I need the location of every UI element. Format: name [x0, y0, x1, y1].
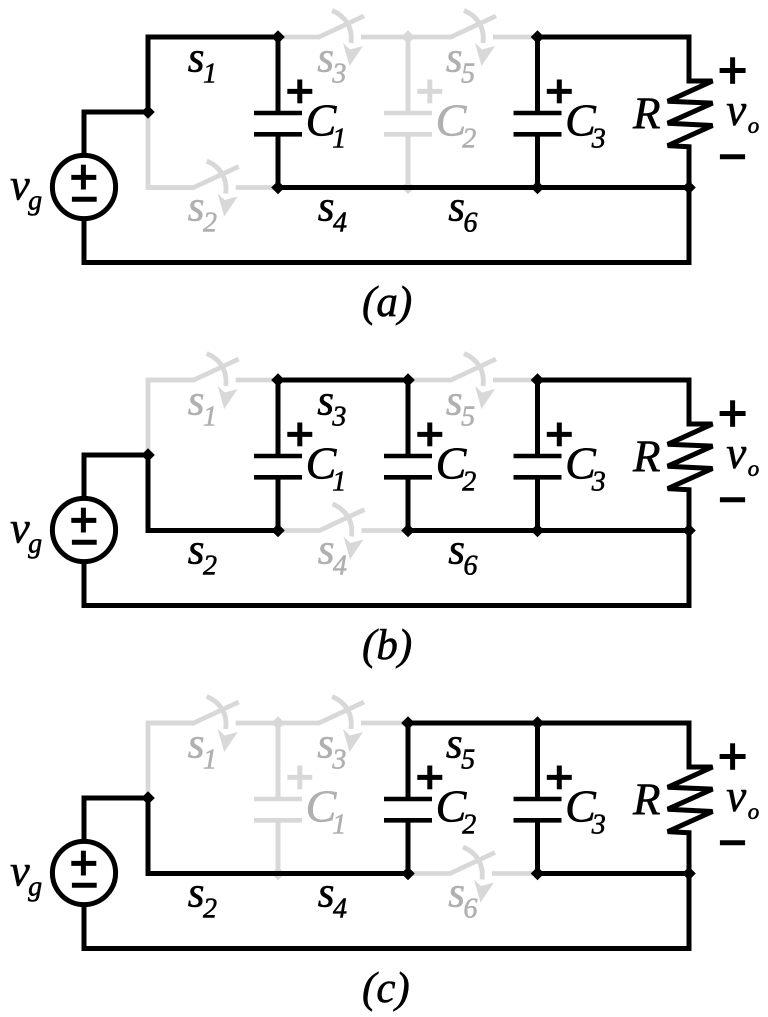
node C3 top: [531, 716, 545, 730]
wire s6 (closed switch): [406, 185, 541, 190]
svg-text:s1: s1: [188, 378, 217, 433]
node C1 bottom (gray): [271, 867, 285, 881]
wire s1 left segment: [148, 721, 195, 726]
node C2 bottom: [401, 524, 415, 538]
resistor R: [668, 723, 713, 874]
svg-text:s3: s3: [317, 35, 346, 90]
node C3 top: [531, 30, 545, 44]
switch s6 (open): [450, 847, 495, 903]
wire vg top to J1: [84, 112, 148, 153]
svg-text:vg: vg: [10, 503, 42, 559]
wire s2 right segment: [236, 185, 278, 190]
node C1 top: [271, 30, 285, 44]
capacitor C2: [384, 37, 442, 188]
svg-text:R: R: [632, 88, 661, 138]
wire J1 to top rail: [148, 37, 278, 112]
wire s5 left segment: [408, 378, 452, 383]
wire s5 right segment: [493, 378, 538, 383]
wire top rail right: [538, 721, 692, 726]
capacitor C2: [384, 380, 442, 531]
svg-text:C1: C1: [306, 781, 347, 841]
svg-text:s1: s1: [188, 721, 217, 776]
svg-text:s3: s3: [317, 378, 346, 433]
wire s5 right segment: [493, 35, 538, 40]
capacitor C1: [254, 723, 312, 874]
svg-text:(c): (c): [362, 965, 410, 1012]
svg-text:vo: vo: [726, 85, 759, 138]
svg-text:s1: s1: [188, 35, 217, 90]
capacitor C1: [254, 37, 312, 188]
wire s1 left segment: [148, 378, 195, 383]
node C2 top (gray): [401, 30, 415, 44]
svg-text:R: R: [632, 431, 661, 481]
svg-text:s6: s6: [448, 870, 477, 925]
switch s5 (open): [451, 11, 496, 67]
node J1: [141, 791, 155, 805]
label vo minus: [720, 497, 745, 502]
svg-text:C2: C2: [436, 438, 477, 498]
wire s3 right segment: [361, 35, 408, 40]
resistor R: [668, 380, 713, 531]
wire bottom rail right: [538, 185, 690, 190]
node C2 top: [401, 373, 415, 387]
node C3 top: [531, 373, 545, 387]
wire s1 right segment: [236, 721, 278, 726]
switch s3 (open): [319, 11, 364, 67]
wire s5 left segment: [408, 35, 452, 40]
svg-text:s4: s4: [318, 527, 347, 582]
wire J1 to top rail (gray): [148, 380, 195, 455]
wire s4 right segment: [362, 528, 409, 533]
svg-text:s3: s3: [317, 721, 346, 776]
node C2 bottom (gray): [401, 181, 415, 195]
wire s3 right segment: [361, 721, 408, 726]
svg-text:C1: C1: [306, 438, 347, 498]
switch s2 (open): [194, 161, 239, 217]
svg-text:s6: s6: [448, 527, 477, 582]
label vo minus: [720, 840, 745, 845]
node C3 bottom: [531, 524, 545, 538]
capacitor C3: [514, 723, 572, 874]
svg-text:vg: vg: [10, 160, 42, 216]
wire J1 to bottom rail: [146, 455, 151, 531]
wire top rail right: [538, 35, 692, 40]
node C2 bottom: [401, 867, 415, 881]
svg-text:(a): (a): [362, 279, 412, 326]
node C1 top (gray): [271, 716, 285, 730]
svg-text:vg: vg: [10, 846, 42, 902]
svg-text:s5: s5: [446, 721, 475, 776]
svg-text:vo: vo: [726, 428, 759, 481]
node C3 bottom: [531, 181, 545, 195]
wire J1 to bottom rail: [146, 798, 151, 874]
node C1 bottom: [271, 181, 285, 195]
capacitor C1: [254, 380, 312, 531]
wire ground rail: [84, 531, 689, 606]
wire J1 to top rail (gray): [148, 723, 195, 798]
node C3 bottom: [531, 867, 545, 881]
wire s2 (closed switch): [146, 871, 281, 876]
node C1 top: [271, 373, 285, 387]
node R bottom: [682, 867, 696, 881]
svg-text:(b): (b): [362, 622, 412, 669]
svg-text:s4: s4: [318, 184, 347, 239]
wire s4 (closed switch): [276, 185, 411, 190]
svg-text:s4: s4: [318, 870, 347, 925]
svg-text:C2: C2: [436, 95, 477, 155]
wire s3 left segment: [278, 721, 320, 726]
svg-text:s2: s2: [188, 870, 217, 925]
wire ground rail: [84, 874, 689, 949]
node J1: [141, 105, 155, 119]
label vo plus: [720, 400, 746, 427]
label vo plus: [720, 57, 746, 84]
voltage source vg: [52, 155, 115, 218]
wire top rail right: [538, 378, 692, 383]
wire bottom rail right: [538, 528, 690, 533]
switch s1 (open): [194, 697, 239, 753]
svg-text:R: R: [632, 774, 661, 824]
wire s2 left segment: [148, 185, 195, 190]
node R bottom: [682, 524, 696, 538]
svg-text:vo: vo: [726, 771, 759, 824]
wire s4 left segment: [278, 528, 321, 533]
wire s6 (closed switch): [406, 528, 541, 533]
switch s1 (open): [194, 354, 239, 410]
voltage source vg: [52, 498, 115, 561]
switch s5 (open): [451, 354, 496, 410]
resistor R: [668, 37, 713, 188]
wire J1 to bottom rail (gray): [148, 112, 195, 188]
svg-text:s2: s2: [188, 184, 217, 239]
node C2 top: [401, 716, 415, 730]
wire s3 (closed switch): [276, 378, 411, 383]
wire s6 right segment: [492, 871, 538, 876]
node C1 bottom: [271, 524, 285, 538]
svg-text:s6: s6: [448, 184, 477, 239]
wire s3 left segment: [278, 35, 320, 40]
svg-text:s5: s5: [446, 378, 475, 433]
voltage source vg: [52, 841, 115, 904]
wire s6 left segment: [408, 871, 451, 876]
svg-text:s5: s5: [446, 35, 475, 90]
svg-text:C3: C3: [565, 438, 606, 498]
svg-text:C3: C3: [565, 781, 606, 841]
capacitor C3: [514, 37, 572, 188]
wire vg top to J1: [84, 455, 148, 496]
svg-text:C2: C2: [436, 781, 477, 841]
wire s1 right segment: [236, 378, 278, 383]
label vo plus: [720, 743, 746, 770]
wire bottom rail right: [538, 871, 690, 876]
wire s1 (closed switch): [146, 35, 281, 40]
wire s5 (closed switch): [406, 721, 541, 726]
svg-text:C1: C1: [306, 95, 347, 155]
svg-text:C3: C3: [565, 95, 606, 155]
capacitor C2: [384, 723, 442, 874]
switch s4 (open): [320, 504, 365, 560]
switch s3 (open): [319, 697, 364, 753]
wire s4 (closed switch): [276, 871, 411, 876]
capacitor C3: [514, 380, 572, 531]
node J1: [141, 448, 155, 462]
wire s2 (closed switch): [146, 528, 281, 533]
svg-text:s2: s2: [188, 527, 217, 582]
wire vg top to J1: [84, 798, 148, 839]
label vo minus: [720, 154, 745, 159]
wire ground rail: [84, 188, 689, 263]
node R bottom: [682, 181, 696, 195]
